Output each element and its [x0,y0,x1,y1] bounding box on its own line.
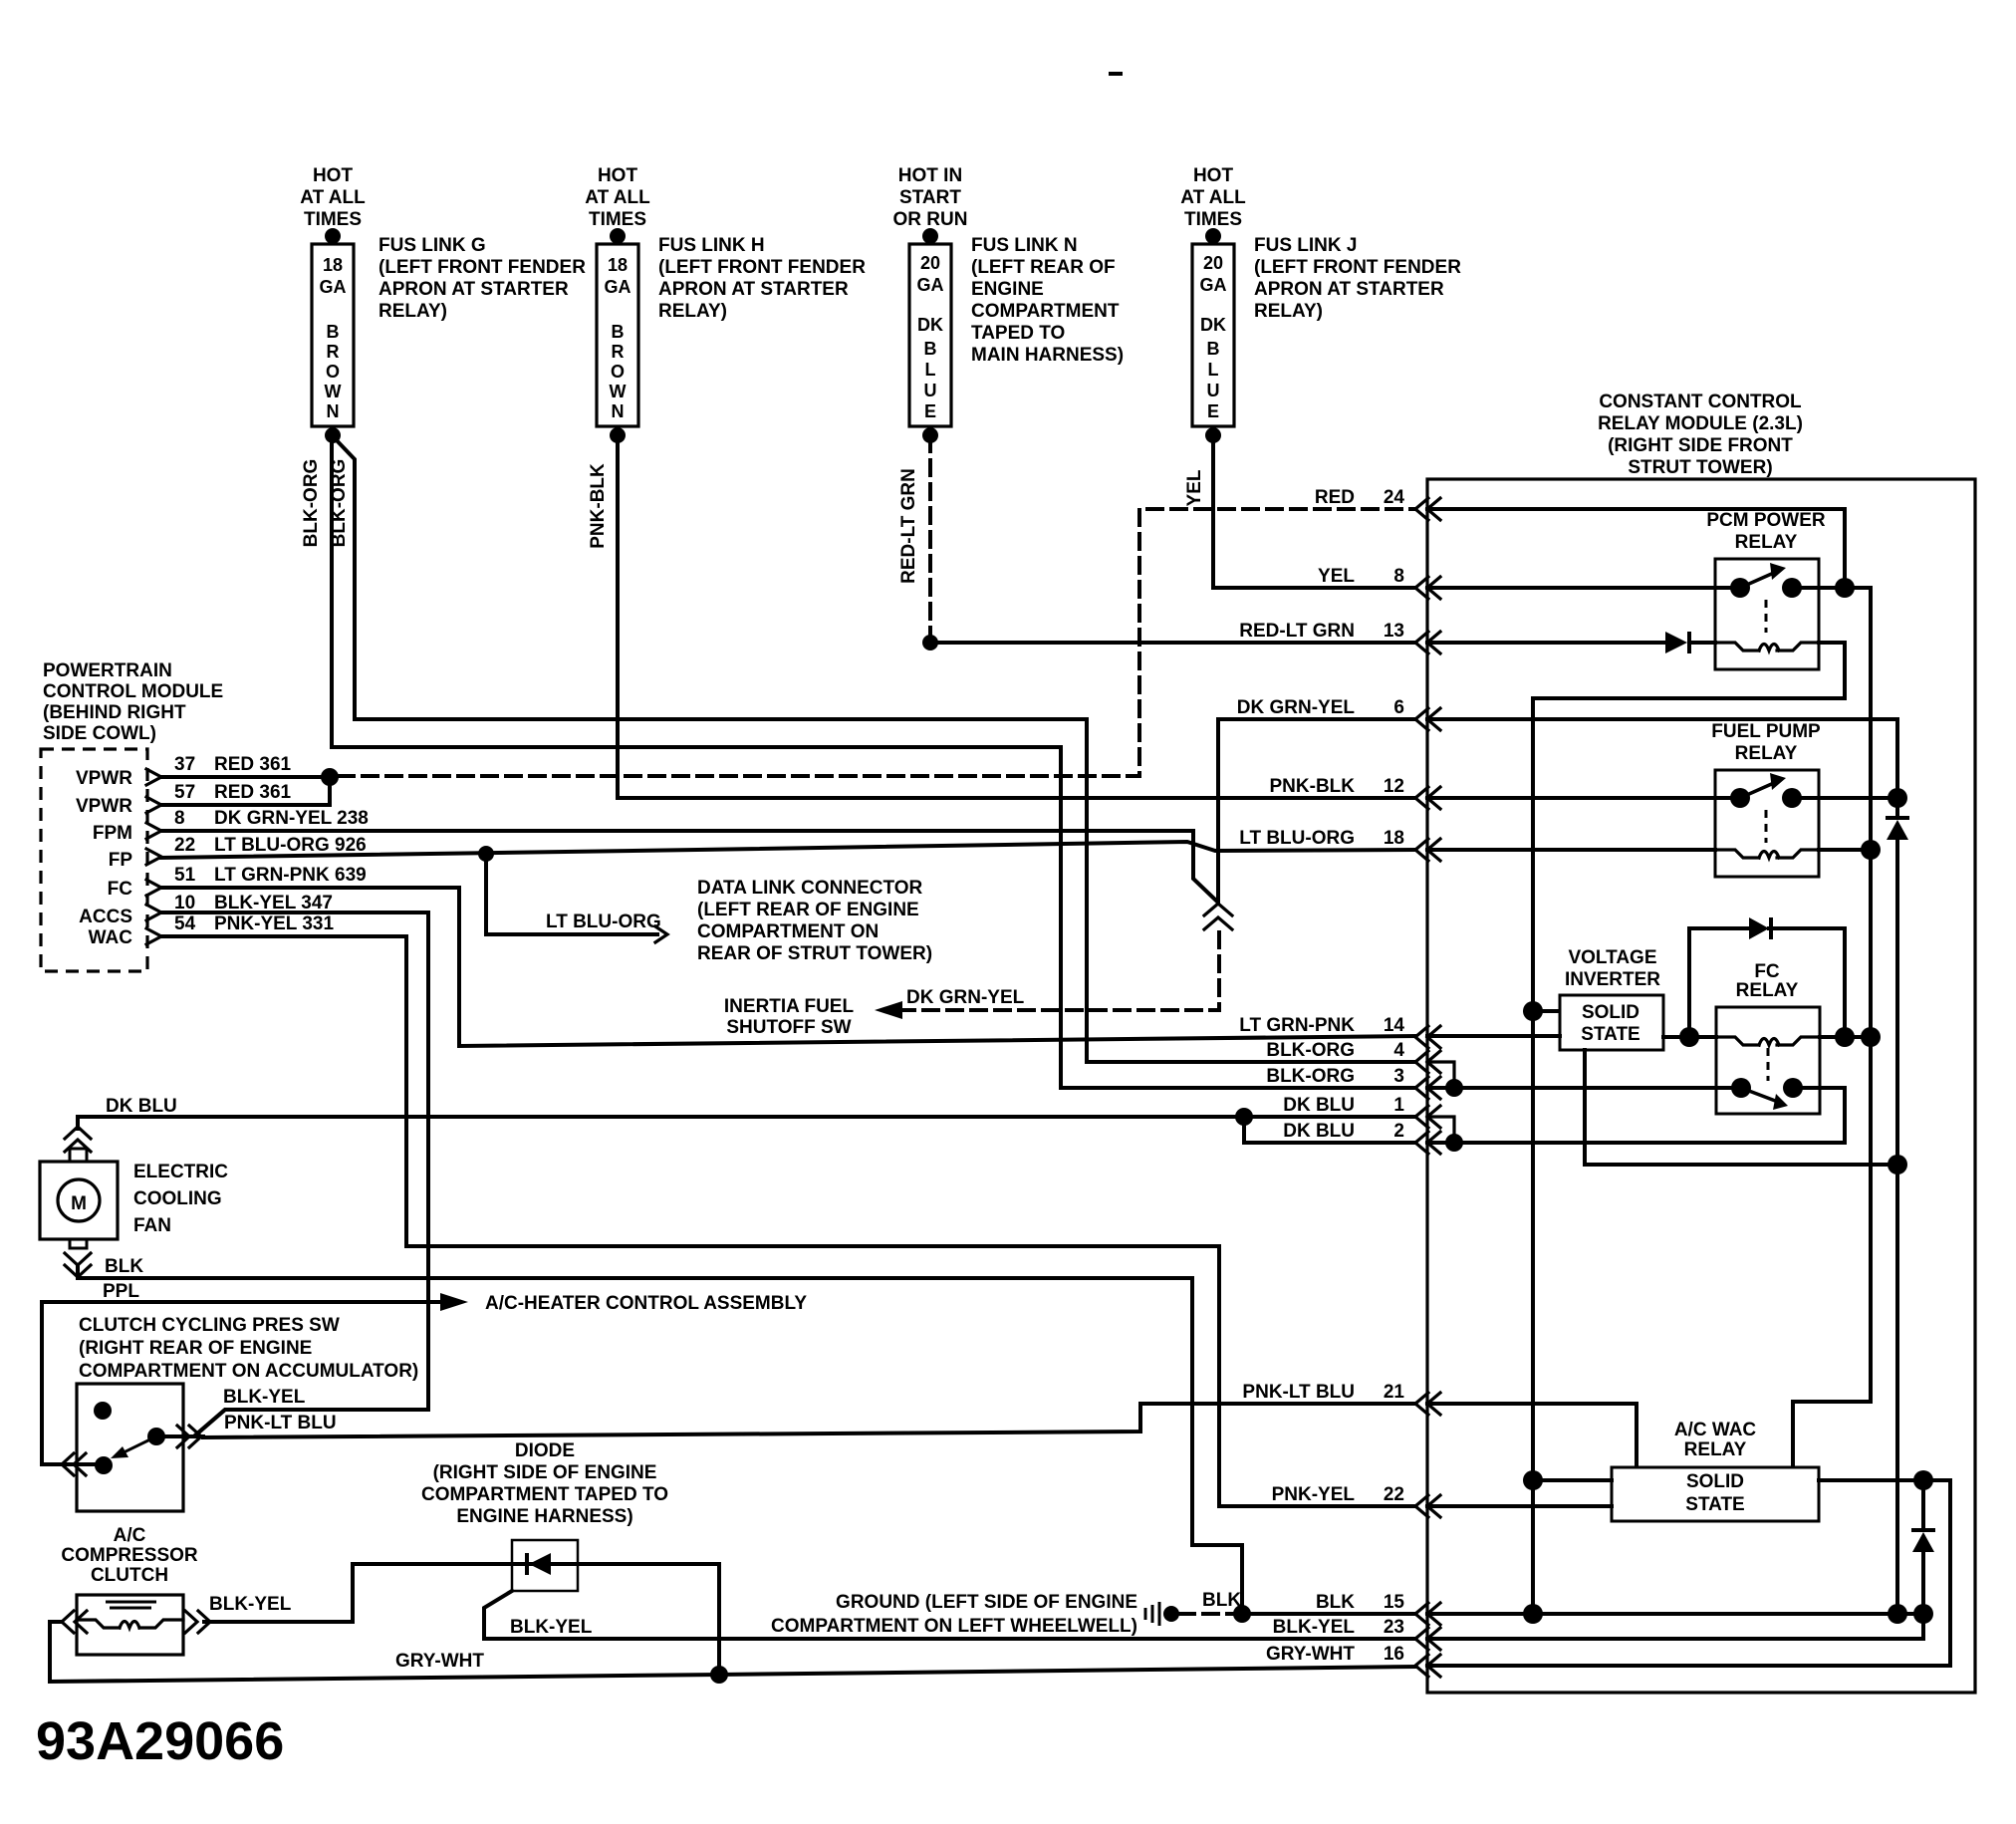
svg-text:RELAY: RELAY [1736,980,1799,1001]
wire RED-LT GRN solid to CCRM pin 13 [930,641,1415,645]
fuse link N top dot [922,228,938,244]
svg-text:RELAY: RELAY [1735,532,1798,553]
svg-text:DK BLU: DK BLU [1283,1095,1355,1116]
wire pin 18 row LT BLU-ORG to relay coil [1427,848,1715,852]
wire pin 6 row DK GRN-YEL to fuel pump switch output [1427,719,1897,798]
wire pin 24 row RED to relay output node [1427,509,1845,588]
label DIODE block [421,1440,668,1527]
wire pin 23 row BLK-YEL inside CCRM [1427,1637,1923,1641]
switch NC contact dot [94,1402,112,1420]
diode box [512,1540,578,1591]
svg-text:INERTIA FUEL: INERTIA FUEL [724,996,855,1017]
wire BLK-YEL from compressor to diode [204,1564,719,1675]
svg-text:GRY-WHT: GRY-WHT [1266,1644,1355,1665]
wire FC coil return [1820,1035,1871,1039]
svg-text:22: 22 [174,835,195,856]
PCM pin stubs [146,769,161,944]
svg-text:23: 23 [1384,1617,1404,1638]
PCM power relay box [1715,559,1819,669]
wire pin 1 hook to pin 2 [1427,1117,1454,1143]
svg-text:PNK-BLK: PNK-BLK [588,463,609,549]
svg-text:ENGINE: ENGINE [971,279,1044,300]
svg-text:CONSTANT CONTROL: CONSTANT CONTROL [1599,391,1802,412]
wire pin 2 row DK BLU [1427,1141,1454,1145]
wire diode D1 to relay coil [1689,641,1715,645]
node dot FC coil return at 1878 [1861,1027,1881,1047]
wire DK GRN-YEL riser to CCRM pin 6 [1218,719,1415,902]
switch arm with arrowhead [118,1436,156,1455]
svg-text:CONTROL MODULE: CONTROL MODULE [43,681,223,702]
fuse link N label HOT IN START OR RUN [893,165,968,230]
svg-text:BLK-YEL: BLK-YEL [1273,1617,1356,1638]
svg-text:FUS LINK H: FUS LINK H [658,235,765,256]
CCRM title [1598,391,1803,478]
svg-text:N: N [327,401,340,421]
svg-text:BLK-YEL 347: BLK-YEL 347 [214,893,333,913]
label ELECTRIC COOLING FAN [133,1162,228,1236]
svg-text:(LEFT REAR OF: (LEFT REAR OF [971,257,1116,278]
svg-text:8: 8 [174,808,185,829]
svg-text:FUS LINK G: FUS LINK G [378,235,486,256]
wire pin 22 row PNK-YEL into WAC box [1427,1504,1612,1508]
svg-text:VOLTAGE: VOLTAGE [1568,947,1656,968]
wire WAC ground feed [1533,1478,1612,1482]
diode D3 on fuel pump output riser [1886,816,1909,820]
switch left chevrons [62,1453,74,1475]
fuse link G text label [378,235,586,322]
svg-text:B: B [1207,339,1220,359]
svg-text:21: 21 [1384,1382,1405,1403]
svg-text:O: O [326,362,340,382]
wire PPL into switch left chevrons [42,1462,104,1466]
svg-text:SOLID: SOLID [1582,1002,1639,1023]
label FC RELAY [1736,961,1799,1001]
fuse link N body 20 GA DK BLUE [909,244,951,426]
label INERTIA FUEL SHUTOFF SW [724,996,855,1038]
arrowhead A/C heater [440,1293,468,1311]
svg-text:RELAY): RELAY) [658,301,727,322]
svg-text:PNK-LT BLU: PNK-LT BLU [224,1413,337,1433]
node dot on fuel pump riser at 1169 [1888,1155,1907,1174]
diode D2 in FC loop [1749,917,1769,939]
svg-text:15: 15 [1384,1592,1405,1613]
svg-text:37: 37 [174,754,195,775]
svg-text:BLK: BLK [1202,1590,1241,1611]
node dot fuel pump switch output [1888,788,1907,808]
svg-text:L: L [1208,360,1219,380]
label A/C WAC RELAY [1674,1420,1757,1460]
wire inverter bottom to fuel pump output node [1585,1050,1897,1165]
wire ACCS BLK-YEL 347 down to clutch cycling switch [161,912,428,1434]
svg-text:ENGINE HARNESS): ENGINE HARNESS) [456,1506,632,1527]
svg-text:RELAY MODULE (2.3L): RELAY MODULE (2.3L) [1598,413,1803,434]
wire BLK ground to pin 15 [1242,1612,1415,1616]
PCM dashed box [41,749,147,971]
svg-text:GA: GA [605,277,631,297]
fan top connector chevrons [65,1127,91,1139]
svg-text:LT BLU-ORG: LT BLU-ORG [1239,828,1355,849]
node dot DK BLU branch [1235,1108,1253,1126]
svg-text:ACCS: ACCS [79,907,132,927]
svg-text:APRON AT STARTER: APRON AT STARTER [1254,279,1444,300]
label VOLTAGE INVERTER [1565,947,1660,990]
svg-text:MAIN HARNESS): MAIN HARNESS) [971,345,1124,366]
svg-text:FC: FC [1754,961,1780,982]
label CLUTCH CYCLING PRES SW [79,1315,418,1382]
svg-text:13: 13 [1384,621,1404,642]
svg-text:HOT: HOT [598,165,638,186]
node dot pin15 x1539 [1523,1604,1543,1624]
svg-text:LT BLU-ORG 926: LT BLU-ORG 926 [214,835,367,856]
svg-text:A/C WAC: A/C WAC [1674,1420,1757,1440]
node dot PCM relay output [1835,578,1855,598]
svg-text:BLK: BLK [105,1256,143,1277]
wire VPWR 57 RED 361 joining [161,777,330,805]
svg-text:24: 24 [1384,487,1405,508]
node dot FC coil left [1679,1027,1699,1047]
fuel pump relay switch arm [1740,782,1776,798]
diode D1 [1665,632,1687,653]
wire node to fuel pump coil feed riser [1869,588,1873,1036]
node dot fuel pump coil return [1861,840,1881,860]
arrowhead at inertia fuel shutoff sw [875,1001,902,1019]
fuel pump relay actuator dashed [1765,810,1768,843]
fuse link H body 18 GA BROWN [597,244,638,426]
svg-text:B: B [327,322,340,342]
wire fuel pump coil return to riser node [1819,848,1871,852]
svg-text:U: U [924,381,937,400]
svg-text:51: 51 [174,865,196,886]
svg-text:RED 361: RED 361 [214,754,292,775]
CCRM pin labels and numbers [1237,487,1405,1665]
svg-text:FP: FP [109,850,133,871]
svg-text:20: 20 [1203,253,1223,273]
node dot WAC output diode tie [1913,1470,1933,1490]
wire DK BLU from fan to CCRM pin 2/1 [78,1117,1415,1129]
svg-text:APRON AT STARTER: APRON AT STARTER [658,279,849,300]
svg-text:(LEFT REAR OF ENGINE: (LEFT REAR OF ENGINE [697,900,919,920]
svg-text:FUEL PUMP: FUEL PUMP [1711,721,1821,742]
svg-text:REAR OF STRUT TOWER): REAR OF STRUT TOWER) [697,943,932,964]
wire FC LT GRN-PNK 639 to pin 14 [161,888,1415,1046]
label GROUND [771,1592,1137,1637]
svg-text:COOLING: COOLING [133,1188,222,1209]
svg-text:FUS LINK J: FUS LINK J [1254,235,1357,256]
wire BLK-YEL diagonal from switch to ACCS riser [196,1410,428,1434]
label A/C COMPRESSOR CLUTCH [61,1525,198,1586]
wire WAC supply from node 1878 [1793,1037,1871,1467]
diode D4 on WAC output [1911,1528,1935,1532]
svg-text:(LEFT FRONT FENDER: (LEFT FRONT FENDER [658,257,866,278]
node dot WAC ground tie on riser [1523,1470,1543,1490]
wire pin 4 hook to pin 3 [1427,1062,1454,1088]
svg-text:3: 3 [1393,1066,1404,1087]
svg-text:PNK-YEL: PNK-YEL [1272,1484,1356,1505]
fan bottom stub [70,1239,87,1248]
fuse link N bottom dot [922,427,938,443]
wire RED-LT GRN dashed from fuse N [928,436,932,638]
svg-text:16: 16 [1384,1644,1404,1665]
svg-text:22: 22 [1384,1484,1404,1505]
svg-text:RED-LT GRN: RED-LT GRN [1239,621,1355,642]
wire fuel pump switch output [1792,796,1897,800]
svg-text:TIMES: TIMES [1184,209,1242,230]
svg-text:M: M [71,1193,87,1214]
wire inverter supply [1533,1009,1560,1013]
wire LT BLU-ORG branch to data link connector [486,854,657,934]
svg-text:L: L [925,360,936,380]
node dot inverter supply on coil-return riser [1523,1001,1543,1021]
svg-text:AT ALL: AT ALL [1180,187,1246,208]
svg-text:YEL: YEL [1318,566,1355,587]
svg-text:BLK-ORG: BLK-ORG [301,459,322,548]
wire relay switch output [1792,586,1871,590]
compressor clutch coil [77,1620,183,1628]
FC relay switch contacts [1731,1078,1751,1098]
svg-text:18: 18 [323,255,343,275]
svg-text:VPWR: VPWR [76,768,132,789]
FC relay actuator dashed [1767,1048,1770,1081]
svg-text:HOT IN: HOT IN [898,165,962,186]
svg-text:(RIGHT SIDE OF ENGINE: (RIGHT SIDE OF ENGINE [433,1462,657,1483]
wire FP LT BLU-ORG 926 to pin 18 [161,842,1415,858]
svg-text:AT ALL: AT ALL [300,187,366,208]
svg-text:BLK-ORG: BLK-ORG [329,459,350,548]
voltage inverter solid state box [1560,995,1663,1050]
wire BLK-YEL from diode box to pin 23 [484,1591,1415,1639]
fuse link N text label [971,235,1124,366]
wire WAC PNK-YEL 331 to pin 22 [161,936,1415,1506]
svg-text:LT GRN-PNK 639: LT GRN-PNK 639 [214,865,367,886]
svg-text:GA: GA [1200,275,1227,295]
PCM pin names [76,768,132,948]
svg-text:GROUND (LEFT SIDE OF ENGINE: GROUND (LEFT SIDE OF ENGINE [836,1592,1137,1613]
svg-text:BLK-YEL: BLK-YEL [510,1617,593,1638]
node dot ground junction [1233,1605,1251,1623]
node dot FP branch [478,846,494,862]
wire PPL to A/C-heater control assembly [42,1302,440,1464]
svg-text:14: 14 [1384,1015,1405,1036]
svg-text:TIMES: TIMES [304,209,362,230]
svg-text:54: 54 [174,913,196,934]
fuse link J top dot [1205,228,1221,244]
node dot FC coil return at 1852 [1835,1027,1855,1047]
compressor left chevrons [62,1611,74,1633]
compressor clutch top bars [106,1601,156,1604]
fan motor circle M [58,1179,100,1221]
svg-text:20: 20 [920,253,940,273]
svg-text:DK: DK [917,315,943,335]
svg-text:FPM: FPM [93,823,132,844]
label DATA LINK CONNECTOR [697,878,932,964]
svg-text:2: 2 [1393,1121,1404,1142]
node dot pin2 tie [1445,1134,1463,1152]
svg-text:PNK-YEL 331: PNK-YEL 331 [214,913,334,934]
svg-text:DK BLU: DK BLU [106,1096,177,1117]
wire pin 14 row LT GRN-PNK into inverter [1427,1034,1560,1038]
connector chevrons on DK GRN-YEL [1204,904,1232,915]
switch common contact dot [147,1428,165,1445]
PCM power relay switch contacts [1730,578,1750,598]
label PCM POWER RELAY [1706,510,1826,553]
wire PNK-LT BLU from switch to CCRM pin 21 [203,1404,1415,1437]
PCM power relay actuator dashed [1765,600,1768,633]
svg-text:BLK-YEL: BLK-YEL [209,1594,292,1615]
svg-text:STRUT TOWER): STRUT TOWER) [1628,457,1772,478]
switch right chevrons [177,1426,189,1447]
wire fuel pump output riser down [1895,798,1899,1614]
compressor right chevrons [185,1611,197,1633]
PCM title text [43,660,223,744]
svg-text:COMPARTMENT ON ACCUMULATOR): COMPARTMENT ON ACCUMULATOR) [79,1361,418,1382]
svg-text:R: R [612,342,625,362]
svg-text:W: W [610,382,627,401]
svg-text:COMPARTMENT ON: COMPARTMENT ON [697,921,879,942]
svg-text:RELAY): RELAY) [1254,301,1323,322]
wire FPM DK GRN-YEL 238 to connector [161,831,1216,901]
svg-text:GRY-WHT: GRY-WHT [395,1651,484,1672]
fan bottom connector chevrons [65,1253,91,1265]
svg-text:BLK-ORG: BLK-ORG [1266,1040,1355,1061]
svg-text:HOT: HOT [313,165,354,186]
fuse link H top dot [610,228,626,244]
wire pin 3 row BLK-ORG to FC switch contact [1427,1086,1741,1090]
svg-text:DIODE: DIODE [515,1440,575,1461]
svg-text:4: 4 [1393,1040,1404,1061]
A/C compressor clutch box [77,1595,183,1655]
svg-text:TIMES: TIMES [589,209,646,230]
clutch cycling pressure switch box [77,1384,183,1511]
svg-text:LT BLU-ORG: LT BLU-ORG [546,912,661,932]
svg-text:A/C: A/C [114,1525,146,1546]
svg-text:FAN: FAN [133,1215,171,1236]
FC relay box [1716,1007,1820,1114]
svg-text:O: O [611,362,625,382]
node dot pin15 x1931 [1913,1604,1933,1624]
node dot GRY-WHT junction [710,1666,728,1684]
svg-text:PPL: PPL [103,1281,139,1302]
svg-text:OR RUN: OR RUN [893,209,968,230]
fuse link H label HOT AT ALL TIMES [585,165,650,230]
wire BLK dashed ground [1179,1612,1235,1616]
svg-text:GA: GA [320,277,347,297]
svg-text:93A29066: 93A29066 [36,1711,284,1771]
svg-text:SOLID: SOLID [1686,1471,1744,1492]
fuel pump relay coil [1715,850,1819,858]
wire RED dashed from VPWR junction to pin 24 riser [339,509,1415,776]
svg-text:N: N [612,401,625,421]
wire BLK-ORG left from fuse G to CCRM pin 3 [332,436,1415,1088]
wire GRY-WHT to CCRM pin 16 [719,1667,1415,1675]
fuse link J label HOT AT ALL TIMES [1180,165,1246,230]
svg-text:BLK: BLK [1316,1592,1355,1613]
wire pin 21 row PNK-LT BLU into WAC relay top [1427,1404,1637,1467]
svg-text:COMPARTMENT: COMPARTMENT [971,301,1120,322]
svg-text:PNK-BLK: PNK-BLK [1270,776,1356,797]
wire flyback diode loop over FC coil [1689,928,1845,1037]
wire pin 16 row GRY-WHT inside CCRM [1427,1664,1950,1668]
svg-text:1: 1 [1393,1095,1404,1116]
wire pin 15 row BLK inside CCRM [1427,1612,1923,1616]
fuse link J bottom dot [1205,427,1221,443]
svg-text:U: U [1207,381,1220,400]
svg-text:CLUTCH: CLUTCH [91,1565,168,1586]
fan top stub [70,1149,87,1162]
FC relay coil [1716,1037,1820,1045]
CCRM box border [1427,479,1975,1693]
node dot pin3 tie [1445,1079,1463,1097]
wire pin 8 row YEL to relay contact [1427,586,1740,590]
svg-text:APRON AT STARTER: APRON AT STARTER [378,279,569,300]
wire pin 12 row PNK-BLK to relay contact [1427,796,1740,800]
svg-text:FC: FC [108,879,133,900]
svg-text:RED-LT GRN: RED-LT GRN [898,468,919,584]
node dot fuse N to solid wire [922,635,938,651]
fuse link G bottom dot [325,427,341,443]
wire GRY-WHT from compressor left side [50,1622,719,1682]
svg-text:FUS LINK N: FUS LINK N [971,235,1078,256]
fuse link J body 20 GA DK BLUE [1192,244,1234,426]
svg-text:RED: RED [1315,487,1355,508]
svg-text:10: 10 [174,893,195,913]
electric cooling fan box [40,1162,118,1239]
wire FC switch output to pin 2 row [1454,1088,1845,1143]
svg-text:HOT: HOT [1193,165,1234,186]
node dot pin15 x1905 [1888,1604,1907,1624]
fuse link G top dot [325,228,341,244]
svg-text:R: R [327,342,340,362]
svg-text:18: 18 [608,255,628,275]
svg-text:RELAY: RELAY [1684,1439,1747,1460]
svg-text:B: B [612,322,625,342]
svg-text:57: 57 [174,782,195,803]
svg-text:WAC: WAC [89,927,133,948]
svg-text:DK: DK [1200,315,1226,335]
fuse link J text label [1254,235,1461,322]
svg-text:RELAY: RELAY [1735,743,1798,764]
svg-text:CLUTCH CYCLING PRES SW: CLUTCH CYCLING PRES SW [79,1315,340,1336]
wire PNK-BLK from fuse H to CCRM pin 12 [618,436,1415,798]
wire inverter output to FC relay coil [1663,1035,1716,1039]
svg-text:8: 8 [1393,566,1404,587]
svg-text:DK GRN-YEL 238: DK GRN-YEL 238 [214,808,369,829]
svg-text:(LEFT FRONT FENDER: (LEFT FRONT FENDER [1254,257,1461,278]
svg-text:VPWR: VPWR [76,796,132,817]
svg-text:STATE: STATE [1581,1024,1639,1045]
svg-text:PCM POWER: PCM POWER [1706,510,1826,531]
svg-text:LT GRN-PNK: LT GRN-PNK [1239,1015,1355,1036]
label FUEL PUMP RELAY [1711,721,1821,764]
svg-text:POWERTRAIN: POWERTRAIN [43,660,172,681]
svg-text:COMPARTMENT ON LEFT WHEELWELL): COMPARTMENT ON LEFT WHEELWELL) [771,1616,1137,1637]
ground symbol [1144,1608,1147,1620]
svg-text:E: E [924,401,936,421]
svg-text:B: B [924,339,937,359]
wire DK BLU branch to pin 2 [1244,1117,1415,1143]
svg-text:INVERTER: INVERTER [1565,969,1660,990]
svg-text:18: 18 [1384,828,1404,849]
wire switch right terminal [156,1434,203,1438]
wire BLK from fan to ground node [78,1267,1242,1614]
svg-text:PNK-LT BLU: PNK-LT BLU [1242,1382,1355,1403]
svg-text:DATA LINK CONNECTOR: DATA LINK CONNECTOR [697,878,923,899]
svg-text:DK GRN-YEL: DK GRN-YEL [906,987,1025,1008]
svg-text:DK GRN-YEL: DK GRN-YEL [1237,697,1356,718]
svg-text:AT ALL: AT ALL [585,187,650,208]
fuse link H text label [658,235,866,322]
node dot VPWR junction [321,768,339,786]
wire VPWR 37 RED 361 [161,775,330,779]
